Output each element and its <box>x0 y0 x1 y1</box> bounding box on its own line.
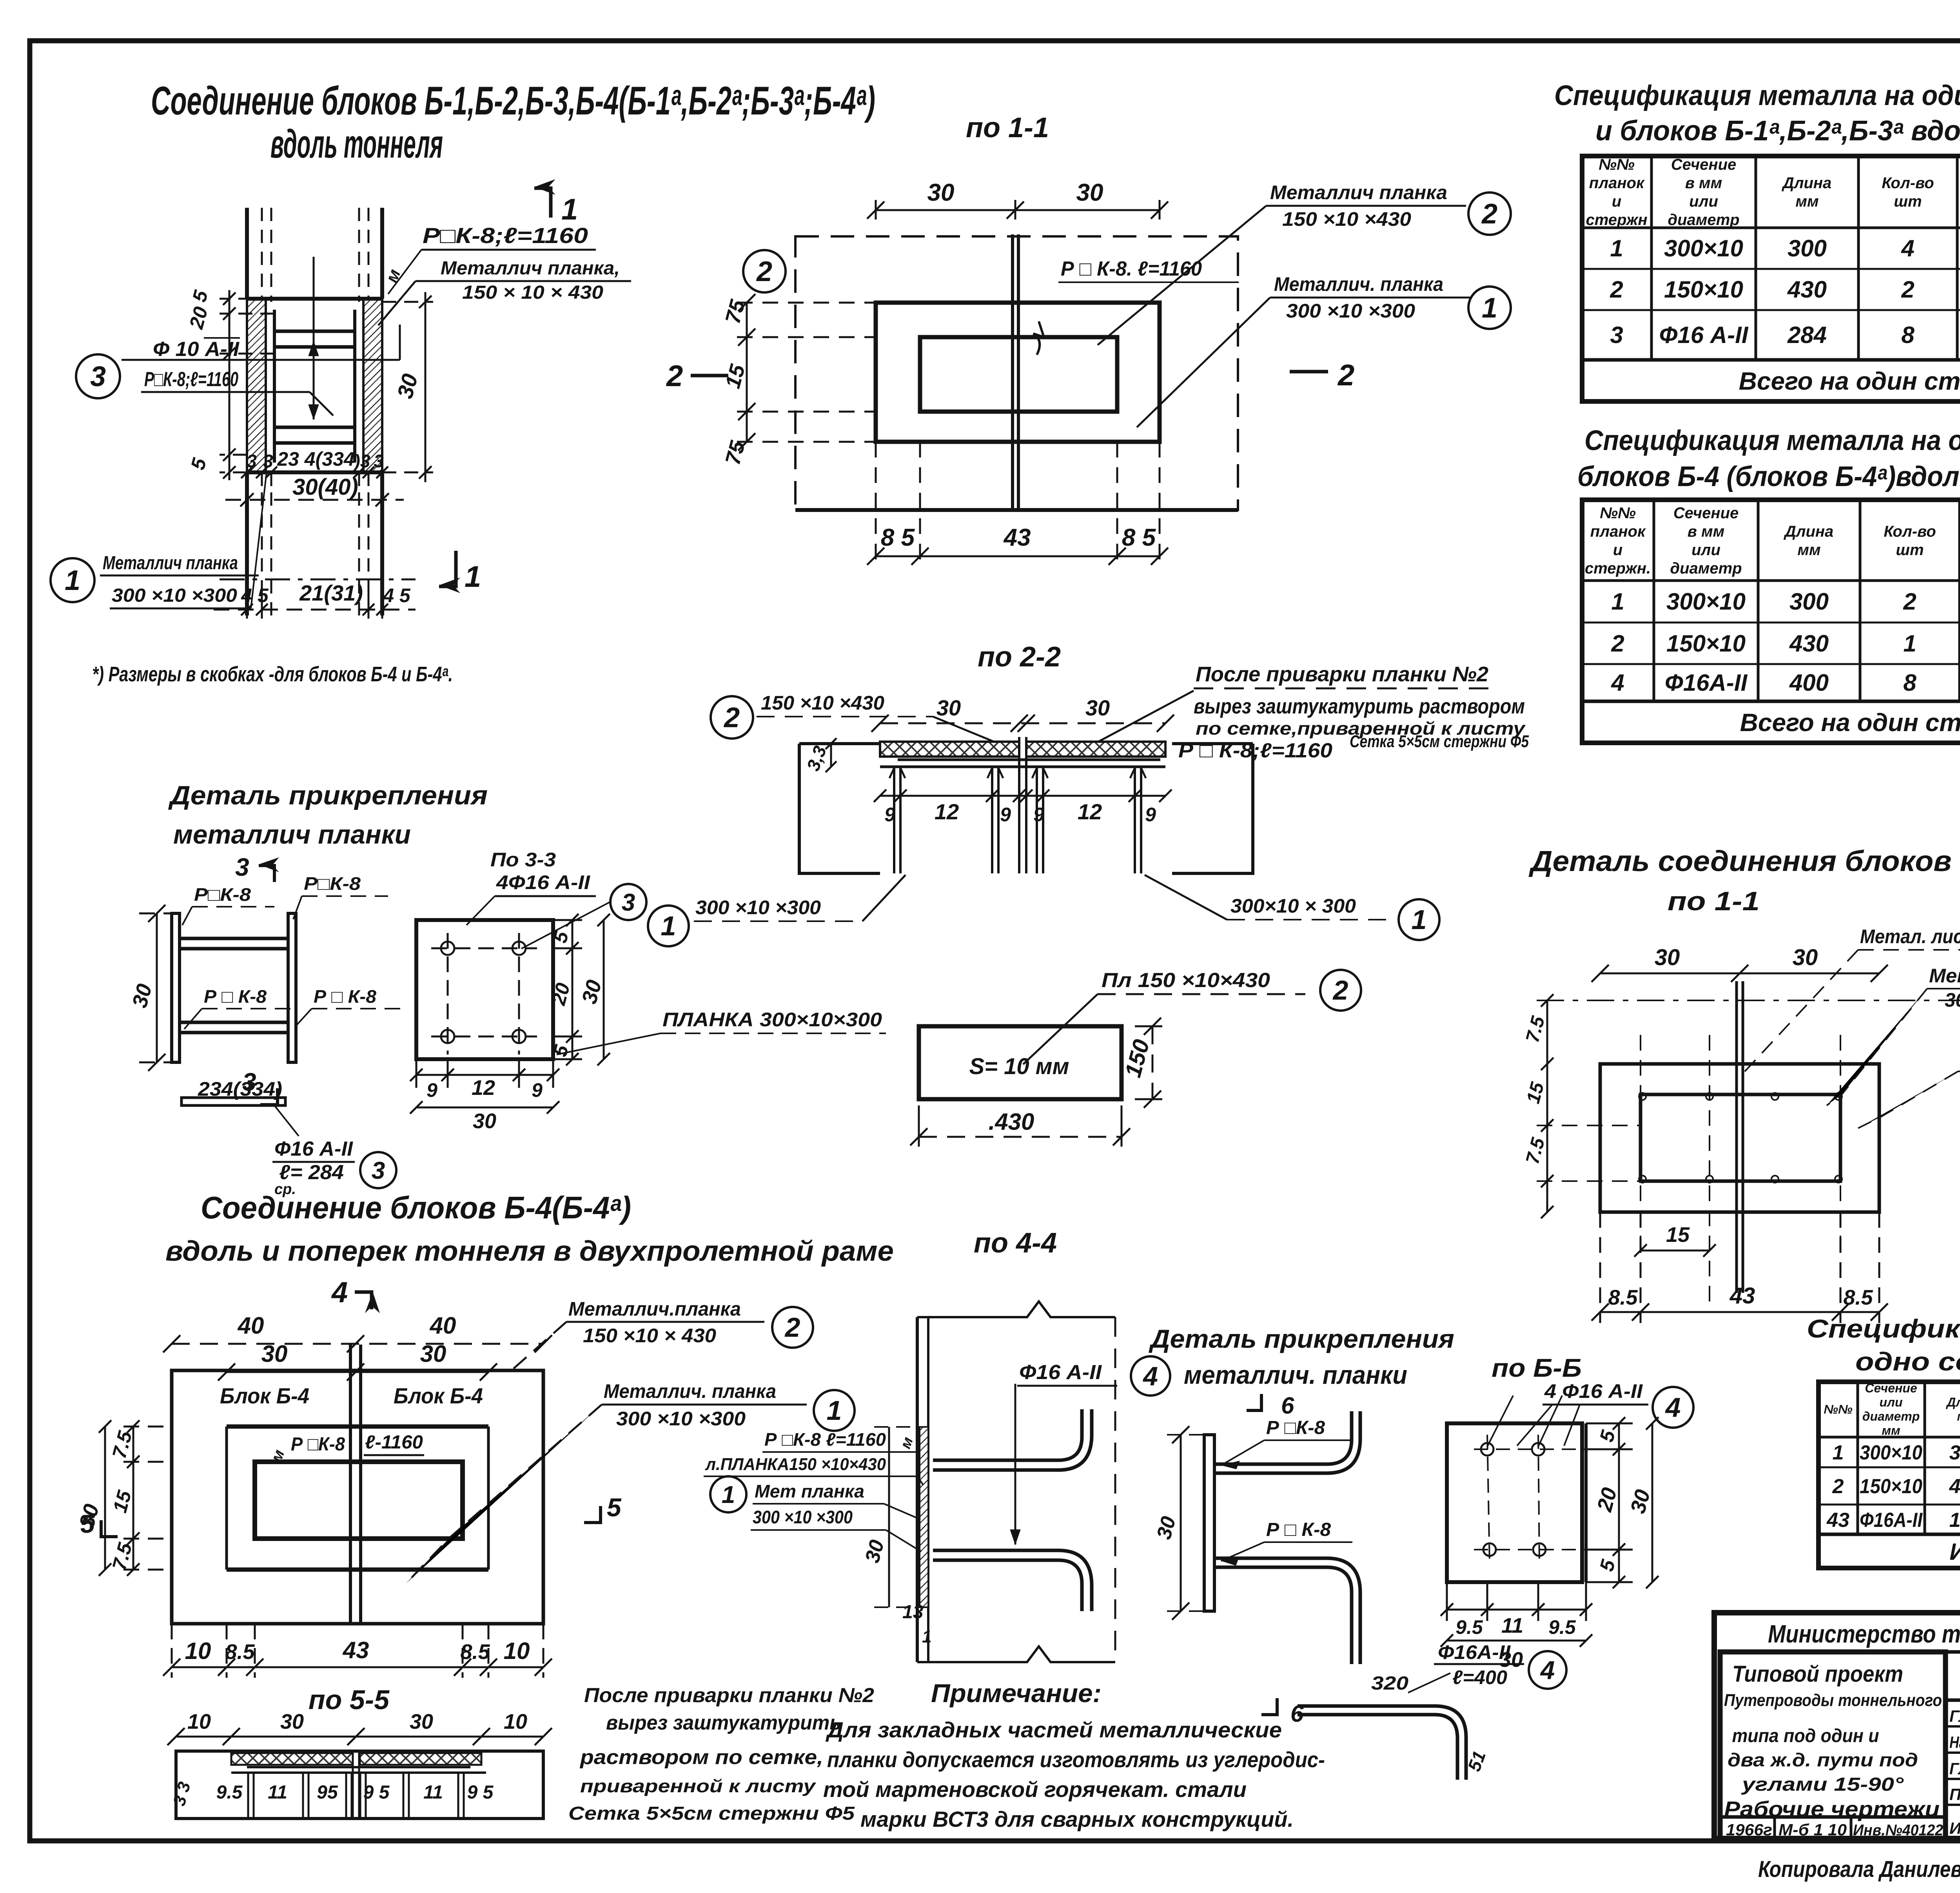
svg-text:1: 1 <box>722 1481 735 1508</box>
svg-text:43: 43 <box>343 1637 369 1663</box>
svg-text:1: 1 <box>561 193 578 226</box>
svg-text:150×10: 150×10 <box>1664 276 1743 303</box>
svg-text:30: 30 <box>261 1341 288 1367</box>
svg-text:Всего на один стык: Всего на один стык <box>1740 708 1960 737</box>
svg-text:4: 4 <box>1540 1655 1555 1684</box>
svg-text:150 ×10 ×430: 150 ×10 ×430 <box>1282 208 1411 230</box>
svg-text:Министерство транспортного стр: Министерство транспортного строительства… <box>1768 1620 1960 1648</box>
svg-text:мм: мм <box>1882 1423 1900 1437</box>
svg-text:После приварки планки №2: После приварки планки №2 <box>1196 662 1488 686</box>
svg-text:1: 1 <box>1482 292 1497 324</box>
svg-text:вдоль тоннеля: вдоль тоннеля <box>270 122 443 166</box>
svg-text:2: 2 <box>1832 1475 1844 1498</box>
svg-text:30: 30 <box>927 179 955 206</box>
svg-text:блоков Б-4 (блоков Б-4ᵃ)вдоль: блоков Б-4 (блоков Б-4ᵃ)вдоль и поперек … <box>1577 461 1960 492</box>
svg-text:ℓ-1160: ℓ-1160 <box>365 1432 423 1453</box>
svg-text:400: 400 <box>1789 670 1829 696</box>
svg-text:по 1-1: по 1-1 <box>966 112 1049 143</box>
svg-text:.430: .430 <box>989 1109 1034 1135</box>
svg-text:или: или <box>1689 193 1718 210</box>
svg-text:Сетка 5×5см стержни Ф5: Сетка 5×5см стержни Ф5 <box>1350 732 1529 751</box>
svg-text:150 × 10 × 430: 150 × 10 × 430 <box>462 282 603 303</box>
svg-text:Гл инж.прта: Гл инж.прта <box>1949 1759 1960 1778</box>
svg-text:40: 40 <box>238 1312 264 1339</box>
svg-text:Кол-во: Кол-во <box>1884 523 1936 540</box>
svg-text:2: 2 <box>723 702 740 733</box>
svg-text:300 ×10 ×300: 300 ×10 ×300 <box>1286 300 1415 322</box>
svg-text:43: 43 <box>1003 524 1031 551</box>
svg-text:Итого: Итого <box>1949 1539 1960 1565</box>
svg-text:или: или <box>1691 541 1720 559</box>
svg-text:8 5: 8 5 <box>1122 524 1156 551</box>
svg-text:9.5: 9.5 <box>216 1782 243 1803</box>
svg-text:Р □К-8: Р □К-8 <box>1266 1417 1325 1438</box>
svg-text:Металлич. планка: Металлич. планка <box>604 1380 776 1402</box>
svg-text:9: 9 <box>1033 804 1044 826</box>
svg-text:Кол-во: Кол-во <box>1882 174 1934 192</box>
svg-text:1: 1 <box>65 565 80 596</box>
svg-text:Деталь соединения блоков по: Деталь соединения блоков подпорных стен <box>1528 845 1960 877</box>
svg-text:150 ×10 × 430: 150 ×10 × 430 <box>583 1325 716 1347</box>
svg-text:300: 300 <box>1788 235 1827 261</box>
svg-text:приваренной к листу: приваренной к листу <box>580 1776 817 1796</box>
svg-text:Р □К-8 ℓ=1160: Р □К-8 ℓ=1160 <box>764 1429 886 1450</box>
svg-text:№№: №№ <box>1599 156 1635 173</box>
svg-text:Ф16 А-II: Ф16 А-II <box>274 1138 354 1160</box>
svg-text:4Ф16 А-II: 4Ф16 А-II <box>496 871 590 893</box>
svg-text:шт: шт <box>1894 193 1922 210</box>
svg-text:4: 4 <box>1901 235 1914 261</box>
svg-text:9.5: 9.5 <box>1548 1616 1576 1638</box>
svg-text:30: 30 <box>1076 179 1103 206</box>
svg-text:Ф16 А-II: Ф16 А-II <box>1659 322 1749 348</box>
svg-text:1: 1 <box>827 1395 842 1426</box>
svg-text:4 Ф16 А-II: 4 Ф16 А-II <box>1544 1380 1643 1402</box>
svg-text:3: 3 <box>247 451 257 471</box>
svg-text:12: 12 <box>472 1076 495 1100</box>
svg-text:Мет планка: Мет планка <box>755 1481 864 1501</box>
svg-text:8.5: 8.5 <box>460 1640 490 1664</box>
svg-text:Р□К-8;ℓ=1160: Р□К-8;ℓ=1160 <box>423 223 588 248</box>
svg-text:3: 3 <box>372 1157 385 1184</box>
svg-text:раствором по сетке,: раствором по сетке, <box>579 1746 823 1769</box>
svg-text:95: 95 <box>317 1782 338 1803</box>
svg-text:S= 10 мм: S= 10 мм <box>969 1054 1069 1079</box>
svg-text:30: 30 <box>1085 695 1110 720</box>
svg-text:Для закладных частей металл: Для закладных частей металлические <box>826 1717 1282 1742</box>
svg-text:3: 3 <box>374 451 384 471</box>
svg-text:по Б-Б: по Б-Б <box>1492 1353 1582 1382</box>
svg-text:Соединение блоков Б-4(Б-4ᵃ): Соединение блоков Б-4(Б-4ᵃ) <box>201 1190 631 1225</box>
svg-text:Типовой проект: Типовой проект <box>1732 1661 1903 1687</box>
svg-text:Металлич.планка: Металлич.планка <box>568 1298 741 1320</box>
svg-text:по 1-1: по 1-1 <box>1668 886 1760 916</box>
svg-text:4 5: 4 5 <box>241 584 269 606</box>
svg-text:1: 1 <box>465 560 481 593</box>
svg-text:)3: )3 <box>352 451 370 471</box>
svg-text:Р□К-8: Р□К-8 <box>194 884 251 905</box>
svg-text:Деталь прикрепления: Деталь прикрепления <box>168 780 488 810</box>
svg-text:Ф16А-II: Ф16А-II <box>1438 1641 1511 1663</box>
svg-text:шт: шт <box>1896 541 1924 559</box>
svg-text:23 4(334: 23 4(334 <box>277 448 354 470</box>
svg-text:М-б 1 10: М-б 1 10 <box>1779 1820 1847 1839</box>
svg-text:одно соединение: одно соединение <box>1855 1347 1960 1376</box>
svg-text:43: 43 <box>1826 1509 1849 1532</box>
svg-text:300×10 × 300: 300×10 × 300 <box>1230 895 1356 917</box>
svg-text:150×10: 150×10 <box>1666 630 1746 657</box>
svg-text:Нач тип отд: Нач тип отд <box>1949 1733 1960 1751</box>
svg-text:9: 9 <box>532 1079 543 1101</box>
svg-text:Р □ К-8: Р □ К-8 <box>1266 1519 1331 1540</box>
svg-text:Ф16А-II: Ф16А-II <box>1665 670 1748 696</box>
svg-text:11: 11 <box>268 1782 287 1803</box>
svg-text:1966г: 1966г <box>1726 1820 1772 1839</box>
svg-text:Р□К-8;ℓ=1160: Р□К-8;ℓ=1160 <box>144 368 238 391</box>
svg-text:планок: планок <box>1589 174 1645 192</box>
svg-text:вырез заштукатурить: вырез заштукатурить <box>606 1712 841 1734</box>
svg-text:Пл 150 ×10×430: Пл 150 ×10×430 <box>1102 969 1270 992</box>
svg-text:8.5: 8.5 <box>225 1640 255 1664</box>
svg-text:Р □ К-8. ℓ=1160: Р □ К-8. ℓ=1160 <box>1061 258 1202 280</box>
svg-text:Блок Б-4: Блок Б-4 <box>220 1383 309 1408</box>
svg-text:1: 1 <box>661 911 676 941</box>
svg-text:мм: мм <box>1957 1409 1960 1423</box>
svg-text:6: 6 <box>1281 1392 1294 1419</box>
svg-text:Металлич планка: Металлич планка <box>103 553 238 574</box>
svg-text:12: 12 <box>1078 799 1102 824</box>
svg-text:40: 40 <box>430 1312 456 1339</box>
svg-text:150 ×10 ×430: 150 ×10 ×430 <box>761 692 884 714</box>
svg-text:Сетка 5×5см стержни Ф5: Сетка 5×5см стержни Ф5 <box>568 1803 855 1824</box>
svg-text:3: 3 <box>235 853 249 881</box>
svg-text:8: 8 <box>1903 670 1916 696</box>
svg-text:430: 430 <box>1787 276 1827 303</box>
svg-text:по 2-2: по 2-2 <box>978 641 1061 673</box>
svg-text:12: 12 <box>935 799 959 824</box>
svg-text:Спецификация металла на: Спецификация металла на <box>1807 1314 1960 1343</box>
svg-text:4: 4 <box>1142 1361 1158 1391</box>
svg-text:9: 9 <box>1000 804 1011 826</box>
svg-text:стержн: стержн <box>1586 211 1647 229</box>
svg-text:Блок Б-4: Блок Б-4 <box>394 1383 483 1408</box>
svg-text:Ф16А-II: Ф16А-II <box>1860 1509 1923 1532</box>
svg-text:1: 1 <box>1412 904 1427 935</box>
svg-text:Длина: Длина <box>1945 1395 1960 1409</box>
svg-text:или: или <box>1880 1395 1903 1409</box>
svg-text:30: 30 <box>280 1710 304 1733</box>
svg-text:30: 30 <box>1655 945 1680 970</box>
svg-text:вырез заштукатурить раствором: вырез заштукатурить раствором <box>1194 695 1525 718</box>
svg-text:Метал. лист 430×150×10: Метал. лист 430×150×10 <box>1860 926 1960 947</box>
svg-text:3: 3 <box>622 889 635 916</box>
svg-text:Метал. лист: Метал. лист <box>1929 965 1960 987</box>
svg-text:и: и <box>1613 541 1622 559</box>
svg-text:мм: мм <box>1795 193 1818 210</box>
svg-text:1: 1 <box>1903 630 1916 657</box>
svg-text:диаметр: диаметр <box>1668 211 1739 229</box>
svg-text:Металлич. планка: Металлич. планка <box>1274 273 1443 295</box>
svg-text:Р□К-8: Р□К-8 <box>304 873 361 894</box>
svg-text:Гл инж.ГТ.М: Гл инж.ГТ.М <box>1949 1707 1960 1725</box>
svg-text:Исполнил.: Исполнил. <box>1949 1819 1960 1837</box>
svg-text:11: 11 <box>423 1782 443 1803</box>
svg-text:Металлич планка: Металлич планка <box>1270 181 1447 203</box>
svg-text:2: 2 <box>784 1312 800 1343</box>
svg-text:Спецификация металла на один с: Спецификация металла на один стык соедин… <box>1584 425 1960 456</box>
svg-text:9 5: 9 5 <box>363 1782 390 1803</box>
svg-text:Р □ К-8: Р □ К-8 <box>204 986 267 1007</box>
svg-text:300×10: 300×10 <box>1666 588 1746 615</box>
svg-text:Примечание:: Примечание: <box>931 1679 1102 1708</box>
svg-text:2: 2 <box>1901 276 1914 303</box>
svg-text:Рабочие чертежи: Рабочие чертежи <box>1724 1797 1940 1821</box>
svg-text:вдоль и поперек тоннеля в двух: вдоль и поперек тоннеля в двухпролетной … <box>165 1236 894 1267</box>
svg-text:планки допускается изготовлят: планки допускается изготовлять из углеро… <box>827 1747 1325 1772</box>
svg-text:30: 30 <box>936 695 961 720</box>
svg-text:мм: мм <box>1797 541 1820 559</box>
svg-text:Проверил: Проверил <box>1949 1785 1960 1804</box>
svg-text:9.5: 9.5 <box>1455 1616 1483 1638</box>
svg-text:1: 1 <box>1611 588 1624 615</box>
svg-text:4 5: 4 5 <box>383 584 411 606</box>
svg-text:Ф16 А-II: Ф16 А-II <box>1019 1361 1102 1384</box>
svg-text:типа под один и: типа под один и <box>1732 1726 1879 1746</box>
svg-text:Ф 10 А-II: Ф 10 А-II <box>153 338 240 361</box>
svg-text:1: 1 <box>922 1627 931 1646</box>
svg-text:ПЛАНКА 300×10×300: ПЛАНКА 300×10×300 <box>662 1009 882 1031</box>
svg-text:ℓ=400: ℓ=400 <box>1452 1666 1507 1688</box>
svg-text:9 5: 9 5 <box>467 1782 494 1803</box>
svg-text:30: 30 <box>1793 945 1818 970</box>
svg-text:1: 1 <box>1833 1441 1844 1464</box>
svg-text:30: 30 <box>420 1341 446 1367</box>
svg-text:2: 2 <box>1332 975 1348 1005</box>
svg-text:300 ×10 ×300: 300 ×10 ×300 <box>112 585 237 606</box>
svg-text:2: 2 <box>1610 276 1623 303</box>
svg-text:2: 2 <box>666 359 683 393</box>
svg-text:300×10: 300×10 <box>1860 1441 1922 1464</box>
svg-text:Деталь прикрепления: Деталь прикрепления <box>1149 1324 1454 1353</box>
svg-text:13: 13 <box>902 1602 924 1623</box>
svg-text:5: 5 <box>607 1493 622 1522</box>
svg-text:300×10: 300×10 <box>1664 235 1743 261</box>
svg-text:Длина: Длина <box>1784 523 1834 540</box>
svg-text:3: 3 <box>263 451 273 471</box>
svg-text:Спецификация металла на один с: Спецификация металла на один стык соедин… <box>1554 80 1960 111</box>
svg-text:углами 15-90°: углами 15-90° <box>1741 1774 1904 1795</box>
svg-text:стержн.: стержн. <box>1585 560 1651 577</box>
svg-text:150×10: 150×10 <box>1860 1475 1922 1498</box>
svg-text:Р □К-8: Р □К-8 <box>291 1434 345 1455</box>
svg-text:8: 8 <box>1901 322 1915 348</box>
svg-text:в мм: в мм <box>1688 523 1724 540</box>
svg-text:10: 10 <box>185 1638 211 1664</box>
svg-text:11: 11 <box>1501 1614 1523 1637</box>
svg-text:Сечение: Сечение <box>1865 1381 1917 1395</box>
svg-text:30: 30 <box>410 1710 433 1733</box>
svg-text:Копировала Данилевская: Копировала Данилевская <box>1758 1857 1960 1882</box>
svg-text:и блоков Б-1ᵃ,Б-2ᵃ,Б-3ᵃ вдоль: и блоков Б-1ᵃ,Б-2ᵃ,Б-3ᵃ вдоль тоннеля <box>1595 115 1960 147</box>
svg-text:Р □ К-8: Р □ К-8 <box>314 986 376 1007</box>
svg-text:300: 300 <box>1789 588 1829 615</box>
svg-text:Металлич планка,: Металлич планка, <box>441 258 620 279</box>
svg-text:8.5: 8.5 <box>1843 1286 1873 1309</box>
svg-text:2: 2 <box>1337 359 1354 392</box>
svg-text:300 ×10 ×300: 300 ×10 ×300 <box>753 1507 853 1527</box>
svg-text:металлич. планки: металлич. планки <box>1184 1360 1407 1389</box>
svg-text:9: 9 <box>1145 804 1156 826</box>
svg-text:по 4-4: по 4-4 <box>974 1227 1057 1259</box>
svg-text:№№: №№ <box>1600 505 1636 522</box>
svg-text:10: 10 <box>504 1638 530 1664</box>
svg-text:планок: планок <box>1590 523 1646 540</box>
svg-text:по 5-5: по 5-5 <box>309 1684 390 1715</box>
svg-text:21(31): 21(31) <box>299 581 363 605</box>
svg-text:2: 2 <box>756 256 772 287</box>
svg-text:430: 430 <box>1789 630 1829 657</box>
svg-text:и: и <box>1612 193 1621 210</box>
svg-text:3: 3 <box>90 361 106 392</box>
svg-text:*) Размеры в скобках -для блок: *) Размеры в скобках -для блоков Б-4 и Б… <box>92 662 453 686</box>
svg-text:300: 300 <box>1949 1441 1960 1464</box>
svg-text:2: 2 <box>1611 630 1624 657</box>
svg-text:два ж.д. пути под: два ж.д. пути под <box>1728 1750 1918 1771</box>
svg-text:8.5: 8.5 <box>1608 1286 1638 1309</box>
svg-text:в мм: в мм <box>1685 174 1722 192</box>
svg-text:320: 320 <box>1371 1673 1408 1694</box>
svg-text:л.ПЛАНКА150 ×10×430: л.ПЛАНКА150 ×10×430 <box>705 1455 886 1474</box>
svg-text:№№: №№ <box>1824 1402 1853 1416</box>
svg-text:Путепроводы тоннельного: Путепроводы тоннельного <box>1724 1691 1942 1710</box>
svg-text:9: 9 <box>426 1079 437 1101</box>
svg-text:3: 3 <box>1610 322 1623 348</box>
svg-text:4: 4 <box>331 1276 348 1309</box>
svg-text:1: 1 <box>1610 235 1623 261</box>
svg-text:430: 430 <box>1949 1475 1960 1498</box>
svg-text:Всего на один стык: Всего на один стык <box>1739 367 1960 395</box>
svg-text:5: 5 <box>80 1509 95 1538</box>
svg-text:300 ×300 ×10: 300 ×300 ×10 <box>1945 989 1960 1011</box>
svg-text:2: 2 <box>1903 588 1916 615</box>
svg-text:10: 10 <box>504 1710 527 1733</box>
svg-text:284: 284 <box>1787 322 1827 348</box>
svg-text:30(40): 30(40) <box>292 474 358 500</box>
svg-text:4: 4 <box>1611 670 1624 696</box>
svg-text:300 ×10 ×300: 300 ×10 ×300 <box>695 897 821 918</box>
svg-text:Сечение: Сечение <box>1671 156 1737 173</box>
svg-text:9: 9 <box>884 804 895 826</box>
svg-text:Инв.№40122: Инв.№40122 <box>1853 1822 1943 1839</box>
svg-text:43: 43 <box>1730 1283 1755 1309</box>
svg-text:марки ВСТ3 для сварных кон: марки ВСТ3 для сварных конструкций. <box>860 1807 1294 1831</box>
svg-text:Сечение: Сечение <box>1673 505 1739 522</box>
svg-text:той мартеновской горячекат.: той мартеновской горячекат. стали <box>823 1777 1247 1802</box>
svg-text:металлич планки: металлич планки <box>173 820 411 849</box>
svg-text:10: 10 <box>187 1710 211 1733</box>
svg-text:диаметр: диаметр <box>1862 1409 1920 1423</box>
svg-text:4: 4 <box>1665 1392 1681 1423</box>
svg-text:ℓ= 284: ℓ= 284 <box>279 1161 344 1184</box>
svg-text:150: 150 <box>1949 1509 1960 1532</box>
svg-text:8 5: 8 5 <box>881 524 915 551</box>
svg-text:По 3-3: По 3-3 <box>490 849 556 871</box>
svg-text:Соединение блоков Б-1,Б-2,Б-3: Соединение блоков Б-1,Б-2,Б-3,Б-4(Б-1ᵃ,Б… <box>151 78 875 123</box>
svg-text:30: 30 <box>473 1109 496 1133</box>
svg-text:диаметр: диаметр <box>1670 560 1742 577</box>
svg-text:После приварки планки №2: После приварки планки №2 <box>584 1684 874 1707</box>
svg-text:2: 2 <box>1481 198 1497 230</box>
svg-text:Длина: Длина <box>1782 174 1832 192</box>
svg-text:15: 15 <box>1666 1223 1690 1247</box>
svg-text:300 ×10 ×300: 300 ×10 ×300 <box>616 1408 746 1430</box>
